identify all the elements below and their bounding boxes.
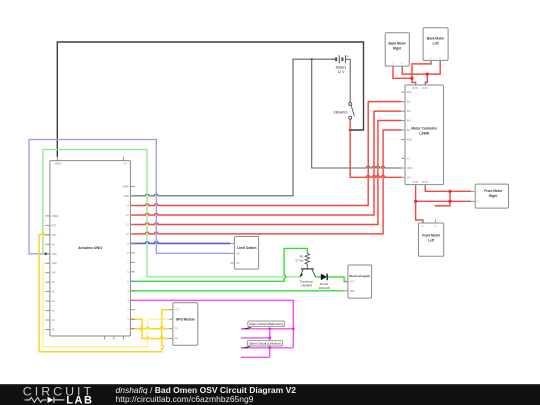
wire gray battery negative to Arduino GND (right side) — [130, 59, 335, 196]
wire magenta flag left arm attach — [241, 347, 293, 349]
svg-text:Electromagnet: Electromagnet — [349, 274, 370, 278]
pin stubs left — [45, 216, 50, 330]
svg-text:GND: GND — [407, 168, 412, 170]
diode D1 1N4148 — [321, 274, 327, 281]
svg-text:Motor Controller: Motor Controller — [411, 127, 438, 131]
junction magenta dots — [268, 327, 271, 330]
motor controller L298N box — [401, 81, 443, 188]
svg-text:5V: 5V — [52, 244, 55, 246]
svg-text:Front Motor: Front Motor — [422, 233, 441, 237]
footer bar — [0, 384, 540, 405]
svg-text:RST: RST — [52, 225, 57, 227]
wire gold Arduino 3.3V to GPS VCC — [39, 233, 169, 352]
pin stubs bottom — [105, 336, 124, 339]
wire red Arduino D11 to controller IN3 — [130, 121, 401, 225]
wire green diode cathode to electromagnet pin 1 — [328, 277, 348, 282]
wire magenta flag right arm attach — [241, 328, 293, 330]
svg-text:Open Circuit (Right Arm): Open Circuit (Right Arm) — [249, 322, 283, 326]
transistor Q1 2N3904 — [300, 264, 316, 277]
front motor left box — [419, 220, 444, 257]
svg-text:1N4148: 1N4148 — [319, 286, 330, 290]
svg-text:GPS Module: GPS Module — [176, 318, 196, 322]
limit switch box — [230, 237, 258, 270]
svg-text:Right: Right — [489, 194, 498, 198]
svg-text:GND: GND — [52, 254, 57, 256]
wire magenta Arduino D3 to vision circuit flags — [130, 300, 293, 348]
Arduino UNO U1 — [45, 157, 134, 340]
svg-text:Back Motor: Back Motor — [427, 37, 445, 41]
electromagnet box — [344, 265, 372, 298]
wire red Arduino D13 to controller IN1 — [130, 102, 401, 206]
wire red dangling stub near front motor left — [435, 191, 450, 206]
CircuitLab logo — [23, 385, 94, 405]
wire red Arduino D12 to controller IN2 — [130, 111, 401, 215]
svg-text:ENA: ENA — [407, 91, 412, 94]
svg-text:VCC: VCC — [350, 282, 355, 284]
wire green Arduino D4 to electromagnet pin 2 — [130, 290, 344, 292]
svg-text:2N3904: 2N3904 — [301, 283, 312, 287]
battery BT1 12V — [332, 55, 350, 102]
svg-text:GND: GND — [350, 291, 355, 293]
svg-text:IOREF: IOREF — [52, 216, 60, 218]
wire magenta stub below left flag — [241, 356, 270, 358]
wire lavender Arduino GND loop to limit switch pin 2 — [29, 140, 230, 254]
wire gray battery negative to motor controller GND pin — [312, 59, 402, 168]
svg-text:NO: NO — [236, 253, 240, 255]
wire green transistor collector to diode anode — [316, 276, 321, 278]
wire light green Arduino GND loop to transistor emitter — [43, 150, 300, 277]
wire magenta vertical tie — [269, 329, 271, 358]
svg-text:12V: 12V — [407, 177, 412, 179]
wire magenta stub below right flag — [241, 337, 270, 339]
wire red controller OUT4 to front motor right pin 1 — [425, 185, 471, 192]
svg-text:Back Motor: Back Motor — [389, 42, 407, 46]
svg-text:Arduino UNO: Arduino UNO — [78, 246, 102, 250]
svg-text:ENB: ENB — [407, 140, 412, 142]
wire blue Arduino D9 to limit switch pin 1 — [130, 242, 230, 244]
wire gold Arduino D0 RX to GPS pin 3 — [130, 327, 169, 329]
svg-text:NC: NC — [236, 263, 240, 265]
wire green Arduino D5 to resistor R1 top — [130, 248, 307, 281]
junction navy blue-green at Arduino GND pin — [44, 252, 47, 255]
svg-text:VCC: VCC — [175, 310, 180, 312]
front motor right box — [471, 184, 509, 208]
back motor left box — [423, 28, 448, 64]
svg-text:VIN: VIN — [52, 273, 56, 275]
resistor R1 — [305, 253, 309, 264]
svg-text:AREF: AREF — [123, 186, 130, 189]
svg-text:5V: 5V — [407, 158, 410, 160]
svg-text:Front Motor: Front Motor — [484, 189, 503, 193]
svg-text:GND: GND — [52, 263, 57, 265]
pin stubs top — [57, 157, 123, 161]
wire red killswitch to motor controller 12V pin — [350, 119, 401, 177]
node flag Open Circuit (Left Arm) — [241, 340, 283, 348]
junction black-red below killswitch — [349, 129, 352, 132]
svg-text:GND: GND — [124, 196, 129, 198]
svg-text:Killswitch: Killswitch — [334, 110, 348, 114]
wire red OUT2 to back motors — [425, 74, 427, 85]
svg-text:5V: 5V — [124, 164, 127, 166]
svg-text:Open Circuit (Left Arm): Open Circuit (Left Arm) — [249, 342, 281, 346]
svg-text:Limit Switch: Limit Switch — [237, 246, 256, 250]
svg-text:Left: Left — [433, 42, 440, 46]
svg-text:Right: Right — [393, 47, 402, 51]
svg-text:RX: RX — [175, 339, 179, 341]
svg-text:12 V: 12 V — [338, 70, 346, 74]
svg-text:LAB: LAB — [66, 395, 93, 405]
svg-text:IOREF: IOREF — [54, 164, 62, 166]
svg-text:OUT1: OUT1 — [412, 88, 419, 90]
wire gold Arduino D1 TX to GPS pin 4 — [130, 319, 169, 338]
svg-text:Left: Left — [428, 238, 435, 242]
svg-text:L298N: L298N — [419, 132, 430, 136]
wire red Arduino D10 to controller IN4 — [130, 130, 401, 234]
svg-text:TX: TX — [175, 329, 178, 331]
node flag Open Circuit (Right Arm) — [241, 321, 285, 329]
wire red OUT1 to back motors — [412, 60, 431, 85]
wire red controller OUT3 to front motor left pin 1 — [416, 185, 423, 223]
back motor right box — [385, 33, 409, 70]
wire red branch to front motor right pin 2 — [416, 200, 471, 202]
svg-text:OUT4: OUT4 — [422, 182, 429, 184]
pin stubs right — [130, 187, 135, 329]
killswitch SW1 — [349, 103, 355, 120]
junction gray at battery feed — [311, 58, 313, 60]
svg-text:Battery: Battery — [336, 66, 347, 70]
GPS module box — [169, 303, 198, 346]
wire black from Arduino top pin to killswitch net — [57, 42, 363, 157]
svg-text:3.3V: 3.3V — [52, 235, 57, 237]
svg-text:OUT3: OUT3 — [412, 182, 419, 184]
wire pale yellow Arduino GND to GPS GND — [43, 263, 169, 347]
svg-text:+: + — [347, 55, 349, 59]
svg-text:http://circuitlab.com/c6azmhbz: http://circuitlab.com/c6azmhbz65ng9 — [116, 394, 254, 404]
svg-text:OUT2: OUT2 — [422, 88, 429, 90]
svg-text:27 kΩ: 27 kΩ — [295, 259, 304, 263]
